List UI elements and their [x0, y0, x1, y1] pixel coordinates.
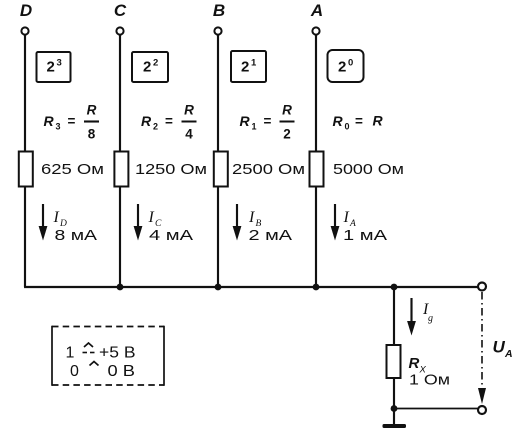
svg-text:8 мА: 8 мА — [55, 227, 98, 244]
svg-text:0: 0 — [345, 122, 350, 132]
junction dot Rx bottom — [391, 405, 398, 412]
weight box 2^3 — [37, 52, 71, 82]
current arrow I_g — [407, 298, 416, 336]
svg-text:2 мА: 2 мА — [249, 227, 293, 244]
svg-text:R: R — [240, 113, 251, 129]
svg-text:C: C — [114, 1, 127, 20]
svg-text:1: 1 — [252, 122, 257, 132]
svg-text:3: 3 — [57, 58, 62, 69]
resistor R1 body — [214, 152, 228, 187]
resistor R2 body — [114, 152, 128, 187]
formula R3 = R/8 — [44, 103, 100, 142]
junction dot C — [117, 284, 124, 291]
label I_D — [53, 209, 68, 229]
svg-text:0: 0 — [70, 363, 79, 380]
svg-text:R: R — [141, 113, 152, 129]
value 1 Ом — [409, 372, 450, 389]
current arrow I_A — [331, 204, 340, 241]
junction dot B — [215, 284, 222, 291]
value 1 мА — [343, 227, 387, 244]
svg-text:R: R — [44, 113, 55, 129]
resistor Rx body — [387, 345, 401, 378]
label Rx — [409, 355, 427, 376]
node B label — [213, 1, 225, 20]
ground lead — [393, 409, 395, 425]
bus wire horizontal — [24, 286, 482, 288]
svg-text:R: R — [333, 113, 344, 129]
weight box 2^2 — [132, 52, 168, 82]
svg-text:A: A — [310, 1, 323, 20]
svg-text:625 Ом: 625 Ом — [41, 161, 104, 178]
label I_g — [422, 301, 433, 324]
value 1250 Ом — [135, 161, 207, 178]
svg-text:R: R — [184, 103, 194, 118]
node C label — [114, 1, 127, 20]
svg-text:4: 4 — [185, 127, 193, 142]
wire C vertical — [119, 35, 121, 287]
terminal output top — [478, 283, 486, 291]
current arrow I_D — [39, 204, 48, 241]
svg-text:g: g — [428, 313, 433, 324]
svg-text:2: 2 — [241, 59, 249, 76]
svg-text:4 мА: 4 мА — [149, 227, 193, 244]
voltage arrow U_A dashed — [478, 292, 486, 404]
resistor R3 body — [19, 152, 33, 187]
svg-text:=: = — [165, 114, 173, 129]
svg-text:I: I — [148, 209, 155, 226]
svg-text:I: I — [53, 209, 60, 226]
label U_A — [493, 338, 513, 361]
current arrow I_C — [134, 204, 143, 241]
node A label — [310, 1, 323, 20]
legend line 1: 1 corresponds to +5 V — [66, 343, 136, 362]
formula R1 = R/2 — [240, 103, 295, 142]
svg-text:2: 2 — [338, 59, 346, 76]
svg-text:=: = — [355, 114, 363, 129]
svg-text:D: D — [20, 1, 32, 20]
svg-text:R: R — [409, 355, 420, 372]
resistor R0 body — [310, 152, 324, 187]
legend line 2: 0 corresponds to 0 V — [70, 362, 135, 381]
svg-text:1: 1 — [251, 58, 257, 69]
wire Rx branch vertical — [393, 287, 395, 409]
svg-text:2: 2 — [153, 58, 158, 69]
value 4 мА — [149, 227, 193, 244]
wire bottom horizontal — [394, 408, 482, 410]
svg-text:=: = — [68, 114, 76, 129]
weight box 2^1 — [231, 51, 266, 82]
wire B vertical — [217, 35, 219, 287]
svg-text:1 Ом: 1 Ом — [409, 372, 450, 389]
wire D vertical — [24, 35, 26, 287]
terminal output bottom — [478, 406, 486, 414]
wire A vertical — [315, 35, 317, 287]
svg-text:I: I — [248, 209, 255, 226]
current arrow I_B — [233, 204, 242, 241]
value 2500 Ом — [232, 161, 305, 178]
svg-text:1: 1 — [66, 345, 75, 362]
label I_A — [343, 209, 357, 229]
svg-text:2: 2 — [143, 59, 151, 76]
ground — [383, 424, 407, 428]
value 625 Ом — [41, 161, 104, 178]
svg-text:3: 3 — [56, 122, 61, 132]
svg-text:A: A — [504, 348, 513, 360]
junction dot A — [313, 284, 320, 291]
value 8 мА — [55, 227, 98, 244]
node D label — [20, 1, 32, 20]
svg-text:R: R — [87, 103, 97, 118]
svg-text:2: 2 — [283, 127, 291, 142]
label I_B — [248, 209, 262, 229]
label I_C — [148, 209, 163, 229]
value 5000 Ом — [333, 161, 404, 178]
svg-text:I: I — [343, 209, 350, 226]
svg-text:0: 0 — [348, 58, 353, 69]
svg-text:B: B — [213, 1, 225, 20]
svg-text:=: = — [264, 114, 272, 129]
svg-text:1250 Ом: 1250 Ом — [135, 161, 207, 178]
terminal C — [116, 27, 123, 34]
svg-text:5000 Ом: 5000 Ом — [333, 161, 404, 178]
formula R2 = R/4 — [141, 103, 197, 142]
svg-text:+5 В: +5 В — [99, 345, 136, 362]
svg-text:R: R — [282, 103, 292, 118]
svg-text:2500 Ом: 2500 Ом — [232, 161, 305, 178]
svg-text:R: R — [373, 113, 384, 129]
svg-text:2: 2 — [47, 59, 55, 76]
svg-text:1 мА: 1 мА — [343, 227, 387, 244]
weight box 2^0 — [328, 50, 364, 82]
svg-text:8: 8 — [88, 127, 96, 142]
svg-text:0 В: 0 В — [108, 363, 136, 380]
terminal B — [214, 27, 221, 34]
junction dot Rx branch top — [391, 284, 398, 291]
formula R0 = R — [333, 113, 384, 132]
terminal A — [312, 27, 319, 34]
svg-text:2: 2 — [153, 122, 158, 132]
terminal D — [21, 27, 28, 34]
legend box dashed — [52, 326, 164, 386]
svg-text:U: U — [493, 338, 506, 357]
value 2 мА — [249, 227, 293, 244]
